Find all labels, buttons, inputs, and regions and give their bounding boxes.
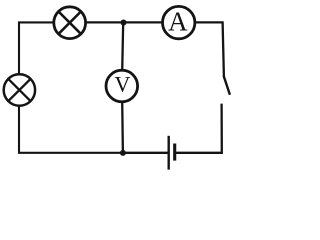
svg-text:A: A — [168, 7, 188, 37]
wire: node B to bottom-left corner, up to lamp L2 — [19, 106, 123, 153]
svg-text:V: V — [115, 72, 131, 97]
wire: battery to node B — [123, 152, 168, 154]
wire: voltmeter down to node B — [121, 102, 124, 153]
switch S1 (open blade) — [224, 76, 230, 95]
wire: node A to ammeter — [123, 21, 162, 23]
lamp L2 (left, circle with X) — [4, 74, 35, 105]
lamp L1 (top, circle with X) — [54, 7, 86, 39]
wire: node A down to voltmeter — [122, 22, 123, 70]
voltmeter V1 — [106, 70, 138, 102]
battery B1 — [169, 136, 175, 170]
wire: switch lower terminal down to bottom-right corner, left to battery — [176, 104, 222, 153]
wire top-left: left corner to lamp L1 — [19, 22, 54, 74]
node B (bottom junction dot) — [120, 150, 126, 156]
node A (top junction dot) — [121, 20, 127, 26]
wire: lamp L1 to node A — [86, 21, 124, 23]
wire: ammeter to top-right corner, down to switch upper terminal — [195, 22, 224, 76]
ammeter A1 — [163, 6, 195, 38]
